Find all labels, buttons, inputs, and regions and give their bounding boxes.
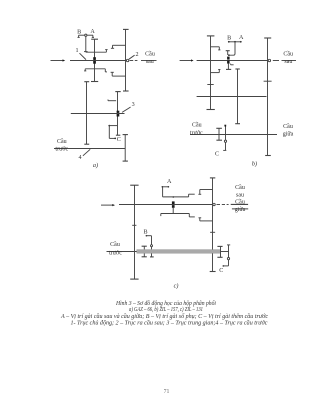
svg-text:1- Trục chủ động; 2 – Trục ra: 1- Trục chủ động; 2 – Trục ra cầu sau; 3… [71, 320, 268, 327]
svg-text:B: B [77, 30, 81, 36]
svg-text:Cầu: Cầu [283, 50, 293, 57]
svg-text:4: 4 [78, 155, 81, 161]
svg-text:c): c) [174, 282, 179, 289]
svg-text:A: A [90, 29, 95, 35]
svg-text:sau: sau [236, 192, 244, 198]
svg-text:giữa: giữa [235, 207, 246, 213]
svg-text:A: A [239, 35, 244, 41]
svg-text:2: 2 [135, 52, 138, 58]
svg-text:a): a) [93, 162, 98, 169]
svg-text:Cầu: Cầu [110, 241, 120, 248]
svg-text:sau: sau [146, 59, 154, 65]
svg-text:A: A [167, 179, 172, 185]
svg-text:Cầu: Cầu [145, 50, 155, 57]
svg-text:sau: sau [284, 59, 292, 65]
svg-text:B: B [227, 35, 231, 41]
svg-text:trước: trước [190, 130, 203, 136]
svg-text:Cầu: Cầu [235, 198, 245, 205]
svg-text:C: C [219, 268, 223, 274]
svg-text:B: B [144, 230, 148, 236]
svg-text:1: 1 [75, 48, 78, 54]
svg-text:b): b) [252, 160, 257, 167]
svg-text:C: C [117, 137, 121, 143]
svg-text:3: 3 [132, 102, 135, 108]
svg-text:Cầu: Cầu [192, 122, 202, 129]
svg-text:trước: trước [55, 147, 68, 153]
svg-text:Cầu: Cầu [283, 123, 293, 130]
svg-text:71: 71 [164, 389, 170, 395]
svg-text:Cầu: Cầu [57, 138, 67, 145]
svg-text:C: C [215, 152, 219, 158]
svg-text:trước: trước [109, 251, 122, 257]
svg-text:giữa: giữa [283, 132, 294, 138]
svg-text:Cầu: Cầu [235, 184, 245, 191]
